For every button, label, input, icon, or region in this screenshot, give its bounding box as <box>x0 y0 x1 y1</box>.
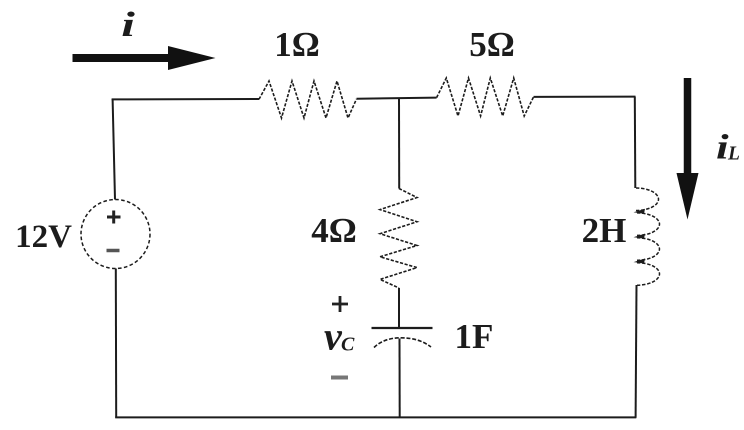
svg-text:2H: 2H <box>582 211 627 250</box>
svg-text:4Ω: 4Ω <box>311 211 357 250</box>
svg-text:i: i <box>121 6 135 45</box>
current arrow iL (down, right side) <box>677 78 699 220</box>
minus sign below vC <box>331 376 348 380</box>
plus sign above vC <box>332 296 348 312</box>
wire left vertical bottom (source bottom to bottom-left corner) <box>115 269 117 418</box>
wire middle vertical (node down to 4-ohm) <box>398 98 400 189</box>
svg-text:5Ω: 5Ω <box>469 25 515 64</box>
svg-text:1Ω: 1Ω <box>274 25 320 64</box>
wire top segment right (5-ohm to top-right corner) <box>534 96 636 98</box>
svg-text:C: C <box>341 334 355 356</box>
svg-text:L: L <box>727 144 740 165</box>
inductor coil pinch curls <box>634 209 646 264</box>
current arrow i (top) <box>73 46 216 70</box>
minus sign inside source <box>107 249 120 253</box>
wire capacitor to bottom <box>399 339 401 418</box>
inductor L 2H coil <box>636 188 660 285</box>
wire 4-ohm to capacitor <box>398 288 400 328</box>
wire top segment middle (1-ohm to 5-ohm through node) <box>357 98 437 99</box>
plus sign inside source <box>107 211 121 224</box>
svg-text:1F: 1F <box>455 317 494 356</box>
svg-text:12V: 12V <box>15 219 72 255</box>
voltage source VS 12V circle <box>81 200 150 269</box>
wire right vertical upper (corner to inductor) <box>634 97 637 188</box>
wire right vertical lower (inductor to bottom-right corner) <box>635 285 638 418</box>
capacitor C1 1F bottom curved plate <box>374 338 431 348</box>
wire top segment left (corner to 1-ohm resistor) <box>112 98 259 100</box>
capacitor C1 1F top plate <box>372 327 433 329</box>
resistor R 1ohm zigzag <box>259 81 357 118</box>
wire left vertical top (source top to top-left corner) <box>113 99 115 200</box>
resistor R 5ohm zigzag <box>437 78 534 116</box>
resistor R 4ohm vertical zigzag <box>380 189 417 289</box>
wire bottom horizontal <box>115 416 636 418</box>
